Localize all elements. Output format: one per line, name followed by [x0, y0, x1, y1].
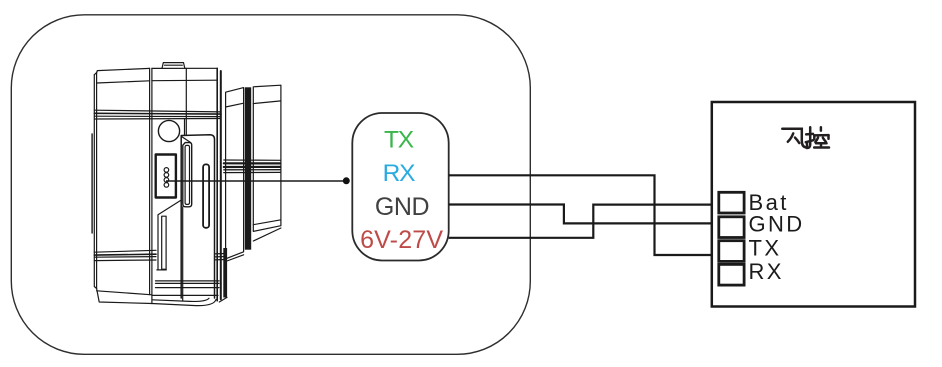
svg-text:RX: RX: [749, 259, 784, 284]
svg-text:TX: TX: [749, 235, 782, 260]
svg-text:TX: TX: [384, 127, 414, 154]
svg-text:RX: RX: [383, 160, 415, 187]
svg-text:GND: GND: [749, 212, 805, 237]
svg-text:6V-27V: 6V-27V: [360, 226, 443, 254]
svg-text:GND: GND: [375, 193, 429, 221]
